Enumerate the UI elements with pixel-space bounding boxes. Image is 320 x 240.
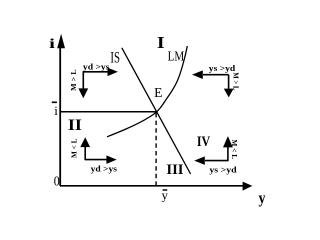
svg-text:i: i xyxy=(49,37,55,52)
svg-text:M < L: M < L xyxy=(69,139,78,158)
svg-text:0: 0 xyxy=(54,174,60,189)
svg-text:M > L: M > L xyxy=(69,69,78,91)
svg-text:I: I xyxy=(157,33,165,52)
svg-text:y: y xyxy=(259,190,266,207)
svg-text:E: E xyxy=(154,85,162,100)
svg-text:M > L: M > L xyxy=(232,72,241,90)
svg-text:i: i xyxy=(54,103,58,118)
svg-text:LM: LM xyxy=(168,48,185,63)
svg-text:yd >ys: yd >ys xyxy=(83,62,110,71)
svg-text:ys >yd: ys >yd xyxy=(209,165,237,174)
svg-text:IS: IS xyxy=(110,50,120,67)
svg-text:IV: IV xyxy=(197,134,210,150)
svg-text:II: II xyxy=(68,117,82,134)
svg-text:III: III xyxy=(166,162,184,178)
svg-text:yd >ys: yd >ys xyxy=(91,165,117,174)
svg-text:M < L: M < L xyxy=(230,140,239,160)
